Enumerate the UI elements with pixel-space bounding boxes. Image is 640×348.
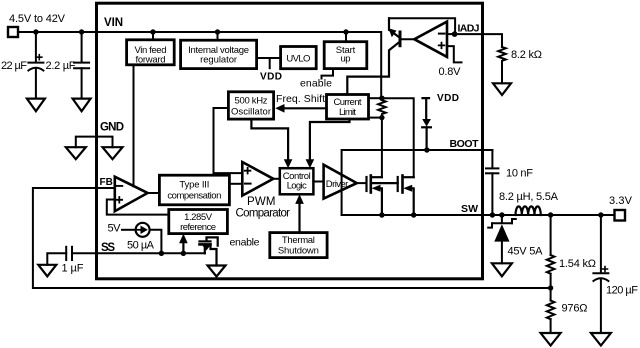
resistor R2 current sense	[378, 98, 386, 116]
svg-text:SW: SW	[461, 203, 478, 215]
svg-text:3.3V: 3.3V	[609, 195, 633, 207]
wire thermal shutdown to control logic with arrow	[298, 203, 300, 233]
svg-text:forward: forward	[136, 54, 166, 65]
svg-text:50 µA: 50 µA	[127, 240, 155, 252]
current source I1 50uA	[136, 223, 150, 237]
node junction dot regulator	[215, 29, 220, 34]
wire 5V to current source	[122, 229, 136, 231]
block 500 kHz oscillator	[228, 92, 273, 119]
svg-text:500 kHz: 500 kHz	[235, 95, 268, 106]
wire VIN sense branch to second FET drain	[382, 98, 414, 177]
wire divider lower	[550, 288, 552, 301]
svg-text:PWM: PWM	[247, 196, 276, 208]
wire GND bracket	[76, 137, 113, 148]
node VDD supply tick	[423, 98, 430, 119]
wire minus input to IADJ node	[447, 33, 455, 35]
block Start up	[324, 42, 367, 69]
wire current limit to control logic with arrow	[310, 119, 350, 164]
capacitor C5 120uF polarized	[593, 267, 608, 282]
ground catch diode	[492, 263, 512, 276]
ground 8.2k resistor	[493, 83, 511, 95]
svg-text:VDD: VDD	[437, 93, 459, 104]
wire oscillator to PWM plus input	[214, 108, 243, 173]
capacitor C1 22uF polarized	[28, 55, 43, 71]
op-amp U1 IADJ comparator	[414, 22, 447, 57]
node junction dot input cap 2.2uF	[79, 29, 84, 34]
ground 976	[541, 333, 561, 346]
svg-text:VDD: VDD	[260, 72, 282, 83]
wire SS rail	[97, 252, 205, 254]
svg-text:Driver: Driver	[326, 179, 349, 190]
op-amp U4 error amplifier	[115, 177, 148, 212]
transistor Q4 sense switch	[398, 176, 414, 216]
svg-text:SS: SS	[101, 242, 115, 254]
svg-text:compensation: compensation	[167, 190, 221, 201]
wire 1uF to ground	[47, 253, 66, 264]
node SW dot diode	[499, 212, 504, 217]
op-amp U5 driver	[324, 165, 357, 199]
svg-text:Type III: Type III	[179, 180, 209, 191]
wire feed forward to error amp	[133, 65, 135, 187]
svg-text:976Ω: 976Ω	[562, 303, 588, 315]
block Control Logic	[280, 168, 314, 194]
svg-text:8.2 kΩ: 8.2 kΩ	[511, 49, 542, 61]
svg-text:Oscillator: Oscillator	[231, 106, 271, 117]
svg-text:120 µF: 120 µF	[606, 285, 638, 297]
svg-text:4.5V to 42V: 4.5V to 42V	[9, 13, 66, 25]
wire reference from SS with arrow	[182, 243, 184, 254]
node output divider dot	[548, 212, 553, 217]
wire FB pin to error amp	[97, 187, 115, 189]
wire control logic to driver	[313, 181, 323, 183]
wire BOOT to 10nF	[491, 150, 493, 168]
terminal J1 input	[8, 27, 18, 37]
wire start up box drop	[345, 32, 347, 42]
ground 22uF	[27, 99, 45, 112]
wire regulator to UVLO	[257, 57, 281, 59]
wire resistor to ground	[501, 62, 503, 84]
ground 2.2uF	[73, 99, 91, 112]
capacitor C2 2.2uF	[74, 63, 89, 69]
svg-text:8.2 µH, 5.5A: 8.2 µH, 5.5A	[499, 191, 559, 203]
block internal voltage regulator	[181, 40, 257, 68]
svg-text:1 µF: 1 µF	[62, 263, 84, 275]
wire output cap top	[600, 215, 602, 273]
svg-text:45V 5A: 45V 5A	[508, 246, 544, 258]
op-amp U3 IC boundary	[97, 3, 483, 279]
wire driver to gate	[357, 182, 367, 184]
svg-text:2.2 µF: 2.2 µF	[46, 60, 76, 72]
wire oscillator to control logic with arrow	[251, 119, 288, 164]
node SW dot Q4 source	[411, 212, 416, 217]
capacitor C4 1uF	[66, 247, 72, 260]
svg-text:VIN: VIN	[104, 17, 123, 29]
wire current limit right bottom	[369, 117, 382, 119]
node junction dot feed forward	[150, 29, 155, 34]
node BOOT diode junction dot	[424, 147, 429, 152]
diode D1 bootstrap	[422, 119, 431, 127]
svg-text:0.8V: 0.8V	[439, 66, 462, 78]
node junction dot input cap 22uF	[33, 29, 38, 34]
svg-text:enable: enable	[300, 78, 332, 90]
ground 1uF	[38, 265, 56, 277]
wire error amp plus to reference	[107, 200, 169, 215]
wire 22uF cap top	[35, 32, 37, 62]
capacitor C3 10nF	[486, 168, 498, 173]
ground output cap	[591, 333, 611, 346]
terminal J2 output	[615, 210, 626, 221]
resistor R3 1.54k	[547, 255, 555, 274]
block Vin feed forward	[127, 40, 175, 65]
op-amp U2 PWM comparator	[242, 162, 273, 196]
svg-text:Freq. Shift: Freq. Shift	[276, 93, 325, 105]
transistor Q3 main switch	[367, 176, 398, 216]
diode D2 catch 45V 5A	[501, 215, 503, 223]
svg-text:Comparator: Comparator	[236, 208, 291, 220]
wire feedback loop to IADJ	[389, 18, 455, 31]
wire BOOT rail	[342, 150, 493, 215]
svg-text:Shutdown: Shutdown	[278, 245, 319, 256]
node IADJ junction dot	[452, 31, 458, 37]
wire diode to BOOT rail	[426, 127, 428, 150]
wire PWM output to control logic	[273, 178, 280, 180]
wire SS pin to 1uF cap	[72, 252, 96, 254]
node SW dot 10nF	[490, 212, 495, 217]
wire divider middle	[550, 274, 552, 288]
block Type III compensation	[159, 175, 229, 205]
svg-text:regulator: regulator	[200, 54, 237, 65]
inductor L1	[516, 206, 541, 215]
svg-text:reference: reference	[180, 222, 216, 233]
ground GND internal	[103, 147, 123, 159]
node output cap dot	[598, 212, 603, 217]
svg-text:Logic: Logic	[287, 181, 307, 192]
svg-text:10 nF: 10 nF	[506, 168, 533, 180]
node junction dot start up	[343, 29, 348, 34]
svg-text:5V: 5V	[108, 223, 122, 235]
wire 22uF to ground	[35, 69, 37, 98]
wire error amp output to compensation	[148, 192, 160, 194]
node feedback divider dot	[548, 285, 553, 290]
wire output cap to ground	[600, 280, 602, 333]
wire freq shift with arrow to oscillator	[283, 107, 327, 109]
svg-text:enable: enable	[230, 237, 260, 249]
svg-text:UVLO: UVLO	[286, 54, 310, 65]
node SS dot reference	[181, 251, 186, 256]
resistor R4 976	[547, 301, 555, 320]
wire current source to SS rail	[150, 230, 162, 254]
wire feed forward box drop	[152, 32, 154, 40]
node sense resistor top dot	[379, 96, 384, 101]
node SS dot current source	[159, 251, 164, 256]
svg-text:IADJ: IADJ	[458, 23, 480, 35]
wire VIN rail	[18, 32, 381, 98]
svg-text:up: up	[341, 54, 351, 65]
node SW dot Q3 source	[379, 212, 384, 217]
wire 10nF to SW	[491, 173, 493, 215]
block 1.285V reference	[169, 210, 228, 234]
transistor Q1 PNP current limit	[347, 18, 400, 94]
wire sense resistor to switch drain	[381, 118, 383, 178]
wire Q1 base to op-amp	[400, 38, 414, 40]
ground GND external	[66, 147, 86, 159]
block UVLO	[281, 47, 317, 69]
resistor R1 8.2k	[498, 47, 506, 62]
wire current limit right top	[369, 97, 382, 99]
block Current Limit	[327, 95, 369, 120]
svg-text:Limit: Limit	[339, 107, 356, 118]
svg-text:GND: GND	[100, 122, 124, 134]
block Thermal Shutdown	[270, 233, 327, 258]
wire 976 to ground	[550, 319, 552, 333]
svg-text:1.54 kΩ: 1.54 kΩ	[559, 258, 596, 270]
node sense resistor bottom dot	[379, 115, 384, 120]
wire regulator box drop	[217, 32, 219, 40]
node VDD tick	[269, 58, 271, 68]
svg-text:BOOT: BOOT	[450, 138, 480, 150]
wire feedback return loop	[33, 188, 551, 288]
wire plus input to 0.8V	[447, 46, 462, 62]
svg-text:FB: FB	[100, 177, 113, 188]
transistor Q2 enable MOSFET	[200, 237, 218, 265]
wire 2.2uF cap top	[81, 32, 83, 62]
svg-text:22 µF: 22 µF	[1, 60, 27, 72]
wire SW rail	[342, 214, 615, 216]
wire divider top	[550, 215, 552, 255]
wire enable step from start up	[322, 69, 334, 79]
wire IADJ pin to resistor	[455, 34, 502, 47]
wire 2.2uF to ground	[81, 68, 83, 98]
ground enable MOSFET	[208, 266, 226, 277]
wire compensation to PWM minus	[229, 183, 242, 185]
